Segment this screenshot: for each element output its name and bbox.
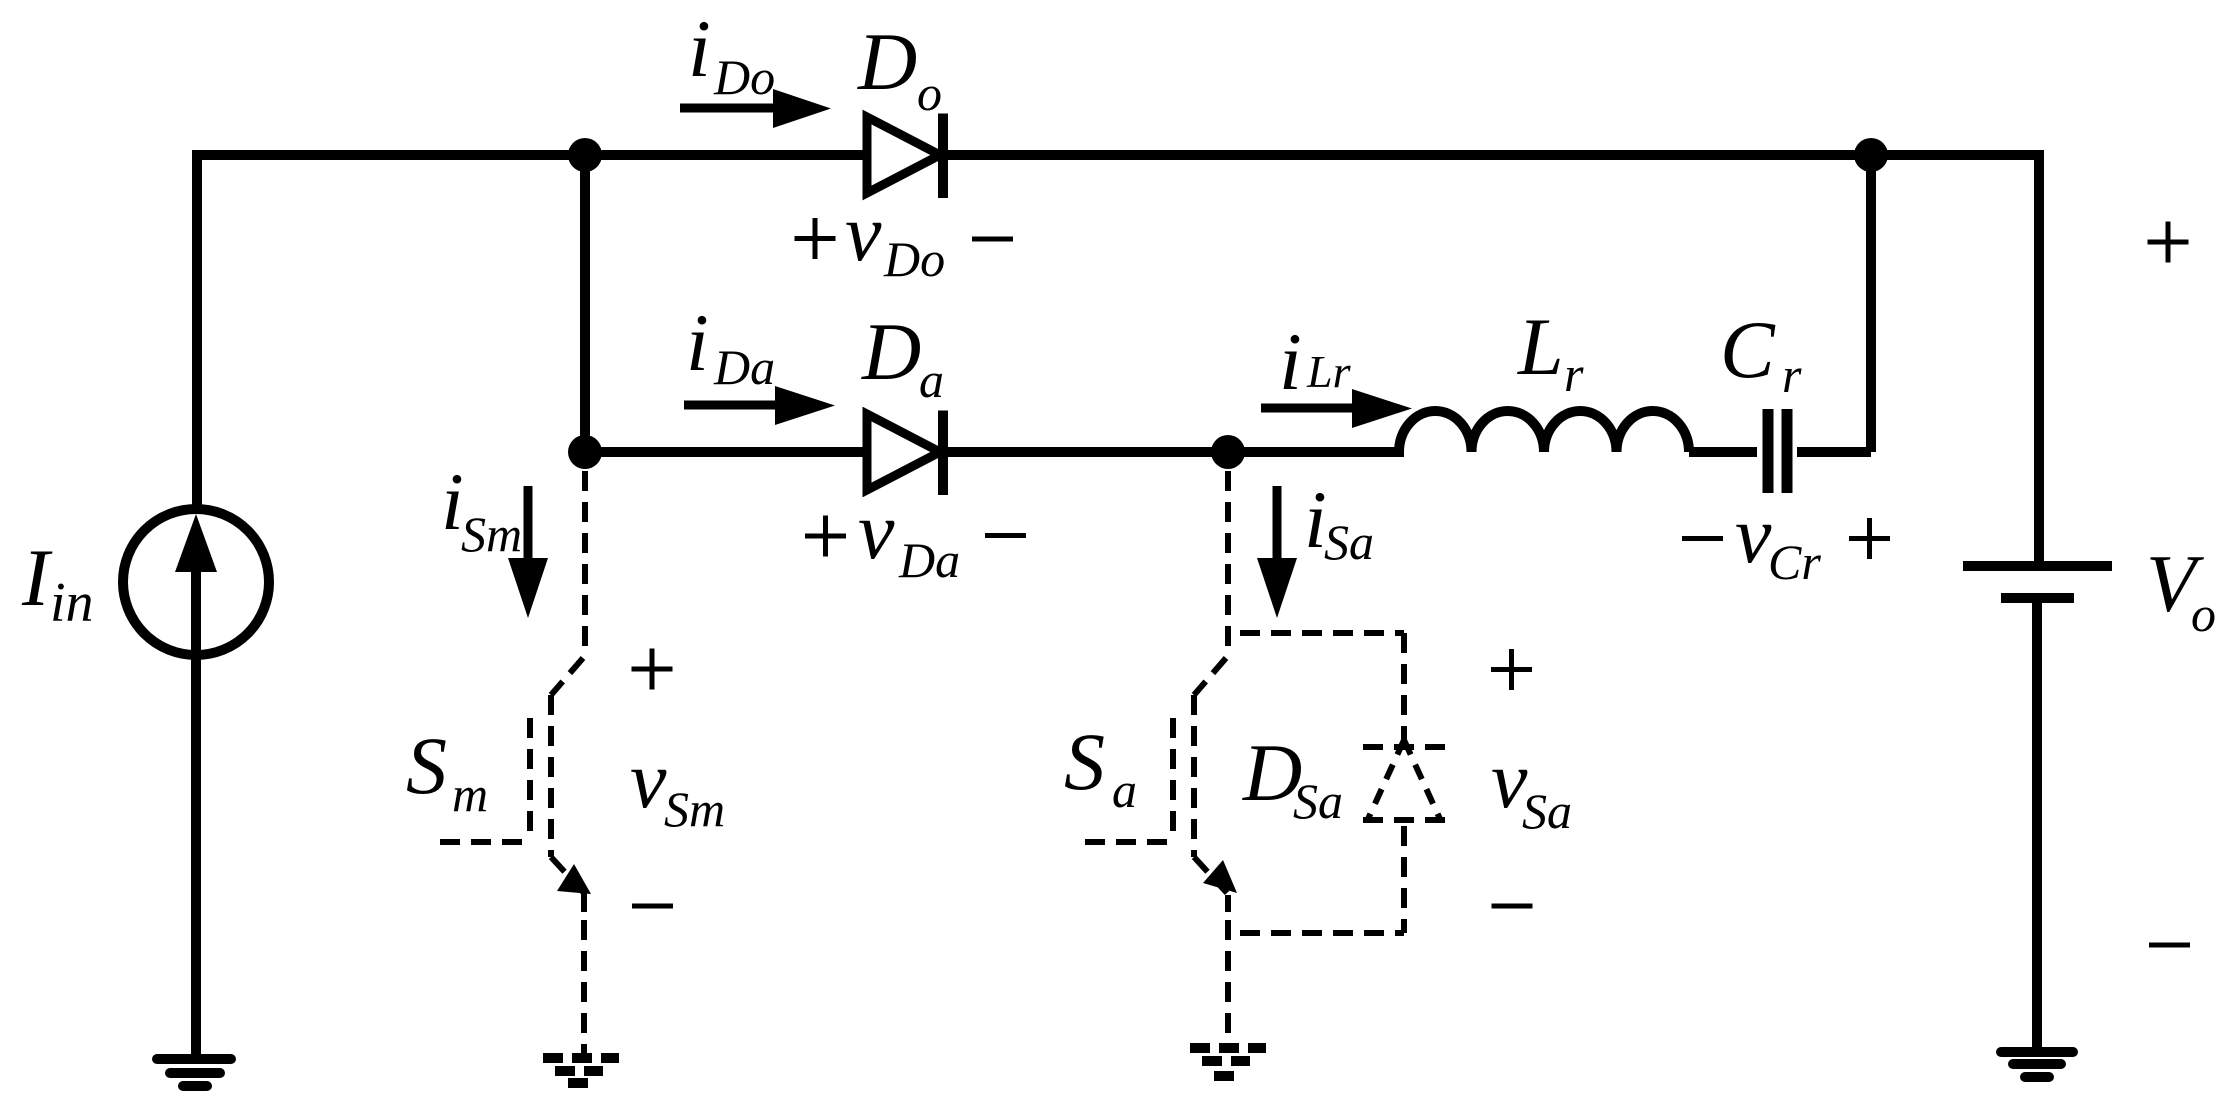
label - (vDo) <box>972 237 1013 242</box>
svg-text:i: i <box>688 3 711 94</box>
transistor Sm source arrowhead <box>557 864 591 894</box>
label Lr <box>1517 301 1584 402</box>
ground (output) <box>2001 1052 2073 1077</box>
svg-text:D: D <box>861 306 921 397</box>
label + (vCr) <box>1849 518 1890 559</box>
label iSa <box>1304 474 1374 570</box>
svg-text:v: v <box>845 187 882 278</box>
ground (Sa, dashed) <box>1190 1048 1266 1076</box>
label vSm <box>630 734 725 837</box>
label Do <box>857 16 942 121</box>
svg-text:S: S <box>1064 716 1105 807</box>
current arrow iLr <box>1261 389 1412 428</box>
wire left vertical from top bus to current source <box>192 150 202 510</box>
svg-text:Da: Da <box>898 532 960 588</box>
diode DSa triangle <box>1363 740 1445 820</box>
svg-text:Sm: Sm <box>461 506 522 562</box>
svg-text:Lr: Lr <box>1306 346 1352 397</box>
svg-text:a: a <box>1112 762 1137 818</box>
node C (Da branch / Sm drain) <box>568 435 602 469</box>
label vCr <box>1735 489 1821 590</box>
diode Da <box>867 411 943 496</box>
label - (vDa) <box>985 533 1026 538</box>
label Da <box>861 306 944 408</box>
wire battery to ground <box>2032 598 2042 1053</box>
svg-text:in: in <box>50 572 94 634</box>
svg-text:Sa: Sa <box>1522 783 1572 839</box>
inductor Lr <box>1399 411 1689 452</box>
current arrow iSm <box>508 486 548 618</box>
svg-text:v: v <box>1735 489 1772 580</box>
svg-text:Da: Da <box>713 339 775 395</box>
label - (vSm) <box>632 904 673 909</box>
svg-text:I: I <box>21 532 53 623</box>
ground (input source) <box>157 1059 231 1086</box>
label + (vDa) <box>805 516 846 557</box>
wire node A down to node C <box>580 155 590 452</box>
transistor Sa source arrowhead <box>1203 860 1237 893</box>
svg-text:Sa: Sa <box>1293 773 1343 829</box>
label + (vDo) <box>795 218 836 259</box>
wire row2 mid segment <box>943 447 1404 457</box>
label iDo <box>688 3 775 105</box>
svg-text:Sm: Sm <box>664 781 725 837</box>
label Sa <box>1064 716 1137 818</box>
wire right riser up to node B <box>1866 155 1876 452</box>
svg-text:a: a <box>919 352 944 408</box>
ground (Sm, dashed) <box>543 1058 619 1083</box>
svg-text:Cr: Cr <box>1768 534 1821 590</box>
svg-text:L: L <box>1517 301 1564 392</box>
transistor Sm source stub <box>581 893 587 912</box>
svg-text:o: o <box>2191 586 2216 642</box>
diode DSa loop right upper <box>1401 633 1407 742</box>
svg-text:v: v <box>630 734 667 825</box>
label + (vSa) <box>1491 649 1532 690</box>
node B (top bus / Cr branch) <box>1854 138 1888 172</box>
transistor Sm (dashed MOSFET) <box>440 471 585 1055</box>
diode DSa loop right lower <box>1401 826 1407 933</box>
svg-text:Do: Do <box>713 49 775 105</box>
label iLr <box>1279 316 1352 407</box>
wire top bus <box>197 150 2039 160</box>
label vDo <box>845 187 945 287</box>
diode DSa loop top <box>1240 630 1404 636</box>
svg-text:i: i <box>1279 316 1302 407</box>
svg-text:r: r <box>1564 346 1584 402</box>
label + (Vo) <box>2148 222 2189 263</box>
label - (vSa) <box>1492 904 1533 909</box>
node D (Lr / Sa drain) <box>1211 435 1245 469</box>
transistor Sa source stub <box>1225 895 1231 912</box>
svg-text:m: m <box>452 766 488 822</box>
label Vo <box>2146 538 2216 642</box>
svg-text:o: o <box>917 65 942 121</box>
wire capacitor to right riser <box>1797 447 1871 457</box>
label - (Vo) <box>2149 943 2190 948</box>
current arrow iSa <box>1257 486 1297 618</box>
wire Vo branch vertical <box>2034 150 2044 566</box>
label iSm <box>441 456 522 562</box>
wire row2 left segment <box>585 447 865 457</box>
capacitor Cr <box>1768 409 1787 493</box>
svg-text:C: C <box>1720 304 1776 395</box>
label Iin <box>21 532 94 634</box>
wire inductor to capacitor <box>1689 447 1757 457</box>
label - (vCr) <box>1682 536 1723 541</box>
label vDa <box>858 485 960 588</box>
svg-text:D: D <box>857 16 917 107</box>
label + (vSm) <box>632 649 673 690</box>
battery Vo <box>1963 566 2112 598</box>
svg-text:i: i <box>686 297 709 388</box>
current arrow iDo <box>680 89 831 128</box>
transistor Sa (dashed MOSFET) <box>1085 471 1228 1045</box>
current arrow iDa <box>684 386 835 425</box>
label iDa <box>686 297 775 395</box>
svg-text:S: S <box>406 720 447 811</box>
svg-text:Sa: Sa <box>1324 514 1374 570</box>
svg-text:r: r <box>1782 347 1802 403</box>
wire below current source <box>191 653 201 1058</box>
diode DSa cathode bar <box>1363 744 1445 750</box>
svg-text:v: v <box>858 485 895 576</box>
label DSa <box>1242 727 1343 829</box>
node A (top bus / Do branch) <box>568 138 602 172</box>
diode DSa loop bottom <box>1240 930 1404 936</box>
label Cr <box>1720 304 1802 403</box>
label vSa <box>1491 734 1572 839</box>
current source I_in <box>123 509 269 655</box>
label Sm <box>406 720 488 822</box>
diode Do <box>867 114 943 199</box>
svg-text:Do: Do <box>883 231 945 287</box>
